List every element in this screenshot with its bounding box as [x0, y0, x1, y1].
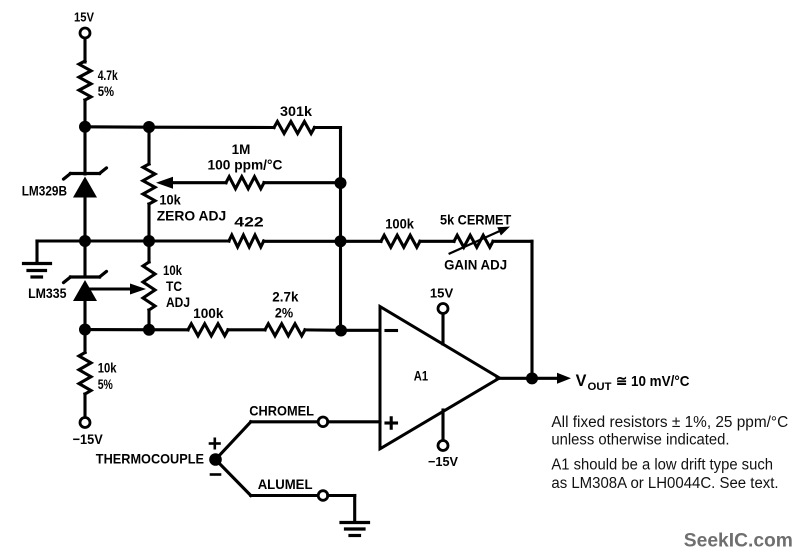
diode D2 LM335 temperature sensor — [28, 271, 106, 301]
diode D1 LM329B (zener) — [22, 168, 107, 199]
wire: output bus vertical x=532 — [530, 241, 533, 378]
wire: node B to R5 — [85, 239, 229, 242]
wire: alumel terminal to ground — [328, 496, 355, 522]
wire: R1 to node A — [83, 100, 86, 174]
wire: LM335 anode down to node C — [83, 301, 86, 353]
note: op-amp type line 2 — [551, 475, 778, 492]
svg-text:A1 should be a low drift type: A1 should be a low drift type such — [551, 456, 773, 473]
svg-text:100k: 100k — [193, 305, 224, 321]
svg-text:10k: 10k — [98, 360, 117, 376]
terminal: alumel connector — [318, 491, 328, 501]
resistor R2 10k 5% (vertical) — [79, 353, 117, 395]
svg-text:1M: 1M — [232, 141, 251, 157]
wire: node A to node D — [85, 125, 149, 128]
LM335 adj arrow to TC ADJ pot wiper — [89, 284, 146, 295]
node C: junction left bus / inverting row — [79, 324, 91, 336]
wire: chromel terminal to op-amp + input — [328, 420, 380, 423]
wire: R4 to node F — [264, 181, 341, 184]
svg-text:−15V: −15V — [73, 431, 104, 447]
svg-text:A1: A1 — [414, 368, 428, 384]
wire: node D to R3 — [149, 126, 274, 129]
wire: ground stub vertical — [35, 241, 38, 262]
op-amp A1 — [380, 307, 500, 449]
potentiometer P1 10k ZERO ADJ — [143, 164, 226, 224]
wire: node C to R7 — [85, 328, 188, 331]
resistor R6 100k (gain row) — [381, 216, 420, 248]
svg-text:5k CERMET: 5k CERMET — [440, 212, 512, 228]
node E: junction mid row / pots — [143, 235, 155, 247]
svg-text:V: V — [576, 371, 587, 390]
thermocouple junction node — [209, 453, 222, 466]
label THERMOCOUPLE — [96, 450, 204, 466]
svg-text:OUT: OUT — [588, 381, 612, 393]
svg-text:ZERO ADJ: ZERO ADJ — [157, 208, 227, 224]
svg-text:THERMOCOUPLE: THERMOCOUPLE — [96, 450, 204, 466]
power terminal +15V (top left) — [74, 10, 94, 39]
svg-text:2%: 2% — [275, 305, 294, 321]
svg-text:≅ 10 mV/°C: ≅ 10 mV/°C — [616, 373, 690, 390]
wire: P2 to output bus corner — [493, 240, 532, 243]
node I: junction right bus / inverting row — [335, 325, 347, 337]
wire: node I to op-amp inverting input — [341, 329, 380, 332]
thermocouple - sign — [211, 473, 220, 476]
node J: output junction — [526, 372, 538, 384]
svg-text:as LM308A or LH0044C. See text: as LM308A or LH0044C. See text. — [551, 475, 778, 492]
label CHROMEL — [249, 403, 314, 419]
svg-text:10k: 10k — [159, 192, 181, 208]
svg-text:SeekIC.com: SeekIC.com — [684, 530, 793, 552]
power terminal -15V (bottom left) — [73, 418, 104, 448]
wire: R5 to node G — [264, 240, 341, 243]
node G: junction right bus / mid row — [335, 235, 347, 247]
wire: node J to output arrow — [532, 377, 557, 380]
op-amp +15V supply — [430, 286, 454, 345]
resistor R8 2.7k 2% — [265, 289, 305, 336]
svg-text:All fixed resistors ± 1%, 25 p: All fixed resistors ± 1%, 25 ppm/°C — [551, 414, 788, 431]
ground symbol (left) — [24, 264, 51, 278]
svg-text:LM329B: LM329B — [22, 183, 67, 199]
wire: op-amp output to node J — [497, 377, 532, 380]
thermocouple + sign — [210, 439, 220, 448]
wire: thermocouple junction to chromel corner — [216, 422, 251, 460]
resistor R1 4.7k 5% (vertical) — [79, 61, 118, 100]
potentiometer P2 5k CERMET GAIN ADJ — [440, 212, 512, 273]
wire: node E down to P3 — [147, 241, 150, 262]
svg-text:LM335: LM335 — [28, 285, 67, 301]
terminal: chromel connector — [318, 417, 328, 427]
svg-text:5%: 5% — [98, 376, 114, 392]
watermark SeekIC.com — [684, 530, 793, 552]
note: resistor tolerance line 2 — [551, 431, 729, 448]
node H: junction inverting row / pot — [143, 324, 155, 336]
wire: node D down to P1 — [147, 127, 150, 164]
wire: R3 to right bus corner — [315, 126, 341, 129]
wire: node G to R6 — [341, 240, 382, 243]
svg-text:15V: 15V — [74, 10, 94, 25]
wire: LM329B anode down to node B — [83, 198, 86, 278]
note: resistor tolerance line 1 — [551, 414, 788, 431]
wire: R8 to node I — [305, 328, 341, 331]
label ALUMEL — [258, 476, 313, 492]
node F: junction right bus / 1M row — [335, 177, 347, 189]
ground symbol (thermocouple) — [341, 523, 369, 536]
wire: thermocouple junction to alumel corner — [216, 460, 251, 496]
wire: right bus vertical x=341 — [339, 128, 342, 331]
wire: P3 down to node H — [147, 310, 150, 330]
svg-text:422: 422 — [234, 214, 264, 230]
node A: junction left bus / top row — [79, 121, 91, 133]
svg-text:unless otherwise indicated.: unless otherwise indicated. — [551, 431, 729, 448]
svg-text:100 ppm/°C: 100 ppm/°C — [208, 157, 283, 173]
svg-text:2.7k: 2.7k — [272, 289, 298, 305]
wire: wiper to R4 — [172, 181, 226, 184]
svg-text:15V: 15V — [430, 286, 454, 301]
wire: R2 to -15V terminal — [83, 394, 86, 417]
svg-text:301k: 301k — [280, 103, 312, 119]
svg-text:GAIN ADJ: GAIN ADJ — [444, 257, 507, 273]
node D: junction top row / zero-adj pot — [143, 121, 155, 133]
svg-text:10k: 10k — [163, 262, 182, 278]
svg-text:−15V: −15V — [428, 454, 458, 469]
svg-text:5%: 5% — [98, 83, 115, 99]
wire: chromel horizontal — [251, 420, 318, 423]
label VOUT = 10 mV/degC — [576, 371, 690, 393]
P1 wiper arrowhead — [156, 177, 173, 189]
note: op-amp type line 1 — [551, 456, 773, 473]
wire: node B to ground stub — [37, 239, 85, 242]
potentiometer P3 10k TC ADJ — [143, 262, 190, 310]
svg-text:4.7k: 4.7k — [98, 67, 118, 83]
svg-text:ADJ: ADJ — [166, 294, 190, 310]
svg-text:ALUMEL: ALUMEL — [258, 476, 313, 492]
svg-text:CHROMEL: CHROMEL — [249, 403, 314, 419]
wire: 15V terminal to R1 — [83, 39, 86, 63]
wire: alumel horizontal — [251, 494, 318, 497]
svg-text:100k: 100k — [385, 216, 414, 232]
resistor R3 301k — [274, 103, 315, 134]
resistor R7 100k (inverting input) — [188, 305, 228, 336]
svg-text:TC: TC — [166, 278, 182, 294]
node B: junction left bus / mid row — [79, 235, 91, 247]
wire: R6 to P2 — [420, 240, 454, 243]
wire: P1 down to node E — [147, 204, 150, 241]
resistor R5 422 — [229, 214, 264, 248]
wire: R7 to R8 — [228, 328, 265, 331]
op-amp -15V supply — [428, 410, 458, 469]
resistor R4 1M 100ppm/degC — [208, 141, 283, 189]
output arrowhead — [557, 373, 571, 384]
